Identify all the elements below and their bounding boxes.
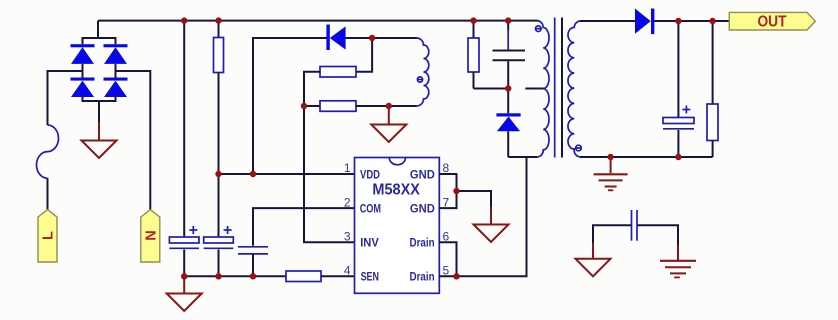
junction aux-R3 bbox=[369, 35, 375, 41]
transformer T1 primary winding bbox=[537, 21, 549, 157]
svg-text:L: L bbox=[41, 231, 57, 240]
earth ground E2 Y-cap bbox=[660, 261, 696, 278]
resistor R2 sense bbox=[286, 271, 321, 282]
fuse F1 bbox=[36, 125, 58, 178]
wire C2 to bus bbox=[218, 250, 220, 277]
junction rail-clamp resistor bbox=[470, 17, 476, 23]
diode D2 bridge top-right bbox=[104, 44, 128, 64]
wire R3 left to divider node bbox=[304, 72, 320, 106]
svg-text:1: 1 bbox=[344, 161, 351, 175]
resistor R5 clamp bbox=[468, 38, 479, 72]
wire rail to bridge top bbox=[97, 21, 99, 38]
capacitor C3 bbox=[238, 247, 268, 254]
wire Y-cap right bbox=[637, 225, 678, 245]
wire C1 to bus bbox=[183, 250, 185, 277]
wire bus to ground G2 bbox=[183, 276, 185, 293]
wire clamp resistor to node bbox=[473, 72, 475, 89]
diode D5 aux rectifier bbox=[326, 25, 345, 51]
diode D7 output rectifier bbox=[635, 9, 654, 35]
wire COM to IC pin2 bbox=[253, 208, 355, 246]
transformer core line 2 bbox=[561, 18, 563, 158]
wire out resistor top bbox=[712, 21, 714, 104]
junction out cap bottom bbox=[675, 154, 681, 160]
wire ground stub dark red bbox=[98, 122, 100, 141]
resistor R1 startup vertical bbox=[214, 38, 224, 73]
resistor R3 feedback upper bbox=[320, 67, 356, 78]
terminal N bbox=[141, 210, 160, 262]
junction out resistor top bbox=[709, 18, 715, 24]
ground G2 primary bbox=[167, 294, 202, 312]
svg-text:M58XX: M58XX bbox=[372, 182, 420, 199]
wire GND pins to ground G4 bbox=[457, 191, 492, 207]
wire ground bus bbox=[184, 275, 286, 277]
junction GND pins bbox=[453, 188, 459, 194]
wire pin8 GND bbox=[439, 174, 457, 208]
wire aux diode down to VDD bbox=[253, 38, 327, 174]
diode D4 bridge bottom-right bbox=[104, 78, 128, 98]
wire out resistor bottom bbox=[712, 141, 714, 158]
plus sign C2 bbox=[224, 226, 232, 234]
wire bridge top bar bbox=[83, 38, 116, 44]
wire transformer tap stub bbox=[525, 88, 544, 90]
junction bus-C3 bbox=[250, 273, 256, 279]
wire earth stub bbox=[610, 157, 612, 173]
svg-text:COM: COM bbox=[360, 202, 381, 216]
wire bridge mid-right to N bbox=[116, 71, 151, 210]
wire bridge mid-left to fuse bbox=[48, 71, 83, 125]
wire clamp node line bbox=[474, 88, 509, 90]
svg-text:N: N bbox=[143, 230, 159, 240]
polarity mark secondary bbox=[576, 145, 582, 151]
junction secondary ground bbox=[607, 154, 613, 160]
wire divider to INV pin3 bbox=[304, 106, 355, 242]
capacitor C1 electrolytic bbox=[169, 237, 199, 248]
transformer T1 secondary winding bbox=[568, 21, 581, 157]
capacitor C2 electrolytic bbox=[204, 237, 234, 248]
junction bus-C1 bbox=[181, 273, 187, 279]
svg-text:Drain: Drain bbox=[410, 270, 435, 284]
wire top DC rail bbox=[98, 20, 538, 22]
wire R3 right leg bbox=[356, 38, 372, 72]
wire Y-cap right earth stub bbox=[677, 245, 679, 260]
junction rail-startup resistor bbox=[215, 17, 221, 23]
wire diode to OUT bbox=[654, 20, 729, 22]
wire clamp cap to node bbox=[507, 61, 509, 88]
wire aux diode anode to winding bbox=[346, 37, 417, 39]
wire bridge right mid segment bbox=[115, 64, 117, 78]
capacitor C4 clamp bbox=[493, 51, 526, 61]
junction rail-clamp cap bbox=[505, 17, 511, 23]
transformer core line 1 bbox=[554, 18, 556, 158]
wire bridge left mid segment bbox=[82, 64, 84, 78]
wire node to TVS bbox=[507, 89, 509, 114]
wire aux return to ground G3 bbox=[388, 106, 390, 125]
junction VDD-aux node B bbox=[250, 171, 256, 177]
label OUT bbox=[729, 12, 815, 30]
junction aux return bbox=[386, 103, 392, 109]
wire secondary top to diode bbox=[580, 20, 635, 22]
ground G1 under bridge bbox=[82, 141, 117, 159]
junction VDD-C2 node A bbox=[215, 171, 221, 177]
wire rail to clamp resistor bbox=[473, 21, 475, 38]
junction rail-cap1 bbox=[181, 17, 187, 23]
svg-text:OUT: OUT bbox=[758, 14, 787, 31]
wire R1 to VDD node and C2 bbox=[218, 73, 220, 238]
svg-text:SEN: SEN bbox=[361, 270, 379, 284]
diode D6 TVS clamp bbox=[496, 113, 520, 131]
resistor R4 feedback lower bbox=[320, 101, 356, 112]
wire fuse to L terminal bbox=[47, 178, 49, 209]
svg-text:INV: INV bbox=[360, 236, 379, 250]
junction Drain pins bbox=[453, 273, 459, 279]
plus sign C1 bbox=[189, 226, 197, 234]
capacitor C5 output electrolytic bbox=[663, 118, 694, 129]
svg-text:Drain: Drain bbox=[410, 236, 435, 250]
wire out cap bottom bbox=[677, 130, 679, 157]
wire R4 left bbox=[304, 105, 320, 107]
resistor R6 output load bbox=[707, 104, 718, 141]
junction clamp node bbox=[505, 85, 511, 91]
junction divider node bbox=[301, 103, 307, 109]
polarity mark aux winding bbox=[417, 77, 422, 82]
plus sign C5 bbox=[682, 106, 690, 114]
IC U1 M58XX body bbox=[355, 158, 440, 294]
ground G3 aux bbox=[371, 125, 406, 143]
ground G5 Y-cap bbox=[576, 259, 611, 277]
wire drain to transformer bbox=[457, 157, 527, 276]
svg-text:VDD: VDD bbox=[360, 167, 380, 181]
svg-text:GND: GND bbox=[410, 167, 435, 181]
wire rail to clamp cap bbox=[507, 21, 509, 30]
wire secondary bottom rail bbox=[580, 156, 713, 158]
inductor L1 aux winding bbox=[417, 38, 429, 106]
capacitor C6 Y-cap bbox=[632, 210, 638, 241]
svg-text:2: 2 bbox=[344, 195, 351, 209]
wire R4 right to aux winding bottom bbox=[356, 105, 417, 107]
wire Y-cap left ground stub bbox=[592, 243, 594, 259]
wire bridge bottom to ground bbox=[98, 101, 100, 122]
wire VDD line to IC pin1 bbox=[219, 173, 355, 175]
wire ground stub G4 bbox=[490, 207, 492, 225]
junction bus-C2 bbox=[215, 273, 221, 279]
svg-text:4: 4 bbox=[344, 264, 351, 278]
diode D1 bridge top-left bbox=[71, 44, 95, 64]
wire out cap top bbox=[677, 21, 679, 118]
ground G4 IC bbox=[474, 225, 509, 243]
junction out cap top bbox=[675, 18, 681, 24]
wire R2 to IC pin4 bbox=[321, 275, 355, 277]
wire pin6 pin5 Drain bbox=[439, 242, 457, 276]
diode D3 bridge bottom-left bbox=[71, 78, 95, 98]
terminal L bbox=[38, 210, 57, 262]
wire drain horizontal bbox=[508, 156, 537, 158]
svg-text:GND: GND bbox=[410, 202, 435, 216]
wire rail to R1 startup bbox=[218, 21, 220, 38]
polarity mark primary bbox=[536, 26, 542, 32]
svg-text:3: 3 bbox=[344, 229, 351, 243]
wire TVS to drain line bbox=[507, 131, 509, 157]
wire C3 to bus bbox=[252, 254, 254, 276]
wire Y-cap left bbox=[593, 225, 632, 243]
earth ground E1 secondary bbox=[594, 174, 628, 190]
wire rail to C1 bbox=[183, 21, 185, 237]
IC notch bbox=[389, 158, 405, 165]
wire bridge bottom bar bbox=[83, 97, 116, 101]
